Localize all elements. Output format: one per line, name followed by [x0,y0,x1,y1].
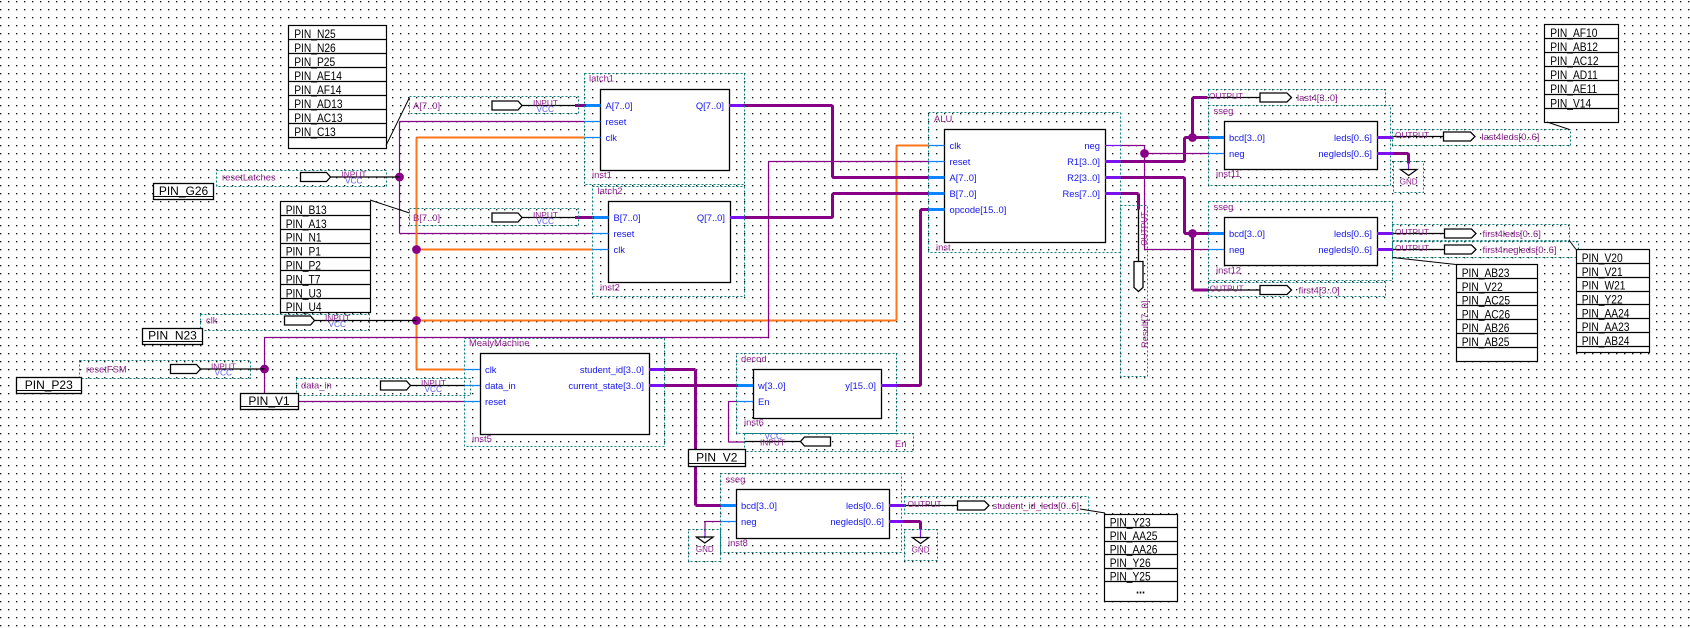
pin name inst12.negleds[0..6] [1318,244,1372,255]
pin assignment table for first4negleds (PIN_AB23...) [1457,265,1538,362]
wire bus MealyMachine.student_id to sseg inst8.bcd [664,370,721,506]
wire bus ALU.R1 to sseg inst11.bcd and output last4 [1121,98,1210,162]
svg-text:inst5: inst5 [472,433,492,444]
wire net resetFSM (input to MealyMachine.reset and ALU.reset) [265,162,929,402]
svg-text:student_id_leds[0..6]: student_id_leds[0..6] [993,500,1080,511]
selection box input clk [201,315,370,331]
svg-text:student_id[3..0]: student_id[3..0] [580,364,644,375]
pin location box PIN_G26 (resetLatches) [154,184,214,200]
pin name inst5.student_id[3..0] [580,364,644,375]
selection box inst1 [585,74,745,185]
svg-text:negleds[0..6]: negleds[0..6] [1318,148,1372,159]
label OUTPUT of pin first4[3..0] [1210,284,1244,294]
svg-text:data_in: data_in [301,380,332,391]
pin name inst11.bcd[3..0] [1229,132,1265,143]
label sseg (symbol name of inst8) [726,474,746,485]
pin name inst5.reset [485,396,506,407]
pin name inst2.reset [614,228,635,239]
pin assignment table for first4leds (PIN_V20...) [1577,250,1650,353]
input pin symbol En [745,437,831,446]
pin stub inst11.negleds[0..6] [1377,152,1394,155]
pin stub inst12.leds[0..6] [1377,232,1394,235]
wire bus sseg inst11.negleds to GND [1394,154,1409,170]
svg-text:OUTPUT: OUTPUT [1395,227,1429,237]
pin name inst2.Q[7..0] [697,212,725,223]
svg-text:Q[7..0]: Q[7..0] [696,100,724,111]
pin stub inst.R2[3..0] [1105,176,1121,179]
svg-text:decod: decod [741,353,767,364]
svg-text:A[7..0]: A[7..0] [413,100,440,111]
input pin symbol B[7..0] [492,213,575,222]
svg-text:GND: GND [696,545,714,554]
component latch2 inst2 symbol body [609,202,731,283]
selection box output Result[7..0] [1121,206,1148,377]
pin stub inst2.B[7..0] [594,216,609,219]
label INPUT/VCC of pin resetFSM [211,361,236,377]
pin name inst.A[7..0] [950,172,977,183]
svg-text:neg: neg [1084,140,1100,151]
svg-text:En: En [758,396,769,407]
callout line from table PIN_B13 to label B[7..0] [370,200,410,213]
node junction neg [1140,149,1149,158]
callout line from table PIN_AF10 to output last4leds [1547,122,1570,130]
label OUTPUT of pin first4negleds[0..6] [1395,243,1429,253]
pin name inst11.negleds[0..6] [1318,148,1372,159]
pin name inst.reset [950,156,971,167]
pin stub inst.A[7..0] [929,176,945,179]
pin stub inst5.clk [465,369,481,371]
pin stub inst5.data_in [465,385,481,387]
svg-text:leds[0..6]: leds[0..6] [846,500,884,511]
svg-text:bcd[3..0]: bcd[3..0] [741,500,777,511]
svg-text:Res[7..0]: Res[7..0] [1062,188,1100,199]
input pin symbol A[7..0] [492,101,575,110]
label pin name Result[7..0] (rotated) [1139,301,1150,348]
label INPUT/VCC of pin data_in [421,378,446,394]
svg-text:clk: clk [950,140,962,151]
svg-text:inst: inst [936,242,951,253]
node junction R1/last4 [1188,133,1197,142]
pin location box PIN_N23 (clk) [143,328,203,344]
pin assignment table for last4leds (PIN_AF10...) [1545,25,1619,123]
svg-text:R1[3..0]: R1[3..0] [1067,156,1100,167]
component sseg inst11 symbol body [1225,122,1378,170]
svg-text:OUTPUT: OUTPUT [1139,212,1149,246]
selection box output last4[3..0] [1209,90,1386,106]
label INPUT/VCC of pin A[7..0] [533,98,558,114]
pin stub inst8.bcd[3..0] [721,504,736,507]
pin name inst8.neg [741,516,757,527]
label latch1 (symbol name of inst1) [589,73,614,84]
svg-text:inst8: inst8 [728,537,748,548]
svg-text:inst1: inst1 [592,169,612,180]
selection box ground GND at sseg inst11 negleds [1394,162,1424,193]
callout line from output student_id_leds to table PIN_Y23 [1080,509,1105,513]
pin stub inst2.reset [593,233,609,235]
label OUTPUT of pin last4[3..0] [1209,91,1243,101]
svg-text:OUTPUT: OUTPUT [1209,91,1243,101]
wire node decod.En to input pin En [729,402,746,443]
pin assignment table for B[7..0] (PIN_B13...) [281,202,371,315]
svg-text:opcode[15..0]: opcode[15..0] [950,204,1007,215]
svg-text:OUTPUT: OUTPUT [908,499,942,509]
svg-text:last4leds[0..6]: last4leds[0..6] [1482,131,1540,142]
svg-text:neg: neg [1229,148,1245,159]
svg-text:ALU: ALU [934,113,952,124]
label MealyMachine (symbol name of inst5) [469,337,529,348]
pin name inst8.negleds[0..6] [830,516,884,527]
pin name inst.R1[3..0] [1067,156,1100,167]
pin stub inst.B[7..0] [929,192,945,195]
selection box output student_id_leds[0..6] [905,497,1089,514]
pin stub inst6.En [737,401,753,403]
selection box ground GND at sseg inst8 neg [689,530,721,562]
pin name inst1.clk [606,132,618,143]
svg-text:negleds[0..6]: negleds[0..6] [830,516,884,527]
selection box output first4[3..0] [1209,283,1386,297]
svg-text:En: En [895,438,906,449]
selection box inst8 [721,474,902,553]
wire bus A[7..0] input to latch1.A [575,104,586,107]
label inst8 (instance name) [728,537,748,548]
component sseg inst12 symbol body [1225,218,1378,266]
label pin name last4leds[0..6] [1482,131,1540,142]
svg-text:neg: neg [741,516,757,527]
pin name inst8.bcd[3..0] [741,500,777,511]
selection box input resetFSM [80,361,251,379]
callout line from output first4negleds to table PIN_V20 [1569,240,1576,250]
svg-text:A[7..0]: A[7..0] [606,100,633,111]
svg-text:leds[0..6]: leds[0..6] [1334,132,1372,143]
label INPUT/VCC of pin En [760,431,785,447]
selection box input En [745,434,914,452]
pin stub inst1.reset [585,121,601,123]
svg-text:clk: clk [606,132,618,143]
label pin name data_in [301,380,332,391]
label pin name B[7..0] [413,212,440,223]
svg-text:OUTPUT: OUTPUT [1210,284,1244,294]
pin location box PIN_P23 (resetFSM) [17,378,82,394]
svg-text:B[7..0]: B[7..0] [950,188,977,199]
svg-text:clk: clk [485,364,497,375]
pin stub inst12.neg [1209,249,1224,251]
svg-text:PIN_G26: PIN_G26 [159,184,209,198]
svg-text:negleds[0..6]: negleds[0..6] [1318,244,1372,255]
pin stub inst6.y[15..0] [881,384,897,387]
output pin symbol last4[3..0] [1208,93,1292,102]
svg-text:last4[3..0]: last4[3..0] [1297,92,1338,103]
svg-text:latch2: latch2 [598,185,623,196]
pin name inst.R2[3..0] [1067,172,1100,183]
selection box inst12 [1209,202,1393,281]
pin stub inst.Res[7..0] [1105,192,1121,195]
pin stub inst8.neg [721,521,736,523]
pin name inst11.leds[0..6] [1334,132,1372,143]
wire bus sseg inst8.negleds to GND [904,522,921,538]
svg-text:VCC: VCC [215,367,233,377]
node junction resetFSM [260,365,269,374]
svg-text:sseg: sseg [1214,201,1234,212]
node junction resetLatches [395,173,404,182]
svg-text:PIN_U4: PIN_U4 [286,301,322,314]
svg-text:w[3..0]: w[3..0] [757,380,786,391]
pin stub inst12.bcd[3..0] [1210,232,1225,235]
component decod inst6 symbol body [754,370,882,419]
label pin name resetFSM [86,364,127,375]
svg-text:first4negleds[0..6]: first4negleds[0..6] [1483,244,1557,255]
pin stub inst1.Q[7..0] [729,104,744,107]
input pin symbol resetLatches [301,173,400,182]
pin stub inst11.neg [1209,153,1224,155]
svg-text:inst12: inst12 [1216,265,1241,276]
wire node sseg inst8.neg to GND [705,522,721,538]
svg-text:reset: reset [485,396,506,407]
wire bus ALU.R2 to sseg inst12.bcd and output first4 [1121,178,1210,291]
selection box output last4leds[0..6] [1393,130,1571,146]
svg-text:PIN_V2: PIN_V2 [696,450,738,464]
pin stub inst5.student_id[3..0] [649,368,664,371]
svg-text:...: ... [1136,581,1145,596]
label pin name first4negleds[0..6] [1483,244,1557,255]
svg-text:OUTPUT: OUTPUT [1395,130,1429,140]
pin name inst1.Q[7..0] [696,100,724,111]
svg-text:PIN_N23: PIN_N23 [148,328,197,342]
svg-text:Q[7..0]: Q[7..0] [697,212,725,223]
output pin symbol Result[7..0] (vertical) [1134,210,1143,292]
label pin name resetLatches [222,172,276,183]
pin name inst.B[7..0] [950,188,977,199]
label ALU (symbol name of inst) [934,113,952,124]
svg-text:VCC: VCC [537,104,555,114]
svg-text:VCC: VCC [537,216,555,226]
svg-text:GND: GND [1400,178,1418,187]
svg-text:B[7..0]: B[7..0] [413,212,440,223]
pin stub inst2.Q[7..0] [730,216,744,219]
pin stub inst5.current_state[3..0] [649,384,664,387]
label inst12 (instance name) [1216,265,1241,276]
svg-text:sseg: sseg [1214,105,1234,116]
label OUTPUT of pin last4leds[0..6] [1395,130,1429,140]
pin name inst.Res[7..0] [1062,188,1100,199]
pin name inst6.y[15..0] [845,380,876,391]
pin assignment table for A[7..0] (PIN_N25...) [289,26,387,149]
svg-text:first4[3..0]: first4[3..0] [1299,285,1340,296]
label pin name clk [206,315,218,326]
label pin name En [895,438,906,449]
svg-text:sseg: sseg [726,474,746,485]
selection box inst [929,113,1121,253]
pin name inst6.w[3..0] [757,380,786,391]
svg-text:resetFSM: resetFSM [86,364,127,375]
selection box input A[7..0] [410,97,579,114]
svg-text:MealyMachine: MealyMachine [469,337,529,348]
svg-text:latch1: latch1 [589,73,614,84]
label sseg (symbol name of inst12) [1214,201,1234,212]
svg-text:bcd[3..0]: bcd[3..0] [1229,132,1265,143]
node junction clk main [412,316,421,325]
label sseg (symbol name of inst11) [1214,105,1234,116]
svg-text:y[15..0]: y[15..0] [845,380,876,391]
input pin symbol data_in [381,381,465,390]
input pin symbol resetFSM [171,365,265,374]
pin name inst5.current_state[3..0] [568,380,644,391]
svg-text:VCC: VCC [329,319,347,329]
label OUTPUT of pin Result (rotated) [1139,212,1149,246]
svg-text:VCC: VCC [425,384,443,394]
node junction clk at latch2 branch [412,245,421,254]
pin stub inst11.leds[0..6] [1377,136,1394,139]
svg-text:reset: reset [950,156,971,167]
pin name inst6.En [758,396,769,407]
svg-text:Result[7..0]: Result[7..0] [1139,301,1150,348]
svg-text:clk: clk [614,244,626,255]
label decod (symbol name of inst6) [741,353,767,364]
svg-text:VCC: VCC [345,175,363,185]
pin stub inst1.clk [585,137,601,139]
svg-text:resetLatches: resetLatches [222,172,276,183]
svg-text:INPUT: INPUT [760,437,785,447]
selection box inst11 [1209,106,1391,186]
svg-text:A[7..0]: A[7..0] [950,172,977,183]
label pin name A[7..0] [413,100,440,111]
callout line from output first4negleds to table PIN_AB23 [1393,258,1457,265]
label latch2 (symbol name of inst2) [598,185,623,196]
wire bus latch2.Q to ALU.B [744,194,929,218]
selection box inst2 [593,187,745,297]
pin stub inst12.negleds[0..6] [1377,248,1394,251]
pin location box PIN_V1 (data_in) [241,394,299,410]
pin stub inst8.leds[0..6] [889,504,906,507]
label pin name student_id_leds[0..6] [993,500,1080,511]
pin name inst8.leds[0..6] [846,500,884,511]
selection box input B[7..0] [410,209,579,226]
pin stub inst8.negleds[0..6] [889,520,904,523]
label INPUT/VCC of pin clk [325,313,350,329]
pin name inst11.neg [1229,148,1245,159]
svg-text:B[7..0]: B[7..0] [614,212,641,223]
wire bus B[7..0] input to latch2.B [575,216,594,219]
label inst11 (instance name) [1216,168,1240,179]
wire bus latch1.Q to ALU.A [744,106,929,178]
svg-text:inst11: inst11 [1216,168,1240,179]
label OUTPUT of pin first4leds[0..6] [1395,227,1429,237]
pin stub inst11.bcd[3..0] [1210,136,1225,139]
component MealyMachine inst5 symbol body [481,354,650,435]
pin stub inst.R1[3..0] [1105,160,1121,163]
ground GND at sseg inst8 neg [696,537,714,554]
selection box inst6 [737,354,897,434]
selection box input data_in [297,379,471,396]
output pin symbol first4[3..0] [1208,286,1292,295]
selection box output first4leds[0..6] [1393,225,1570,241]
component sseg inst8 symbol body [737,490,890,539]
pin stub inst.clk [929,145,945,147]
wire bus ALU.Res to output Result[7..0] [1121,194,1139,210]
svg-text:reset: reset [606,116,627,127]
ground GND at sseg inst11 negleds [1400,170,1418,187]
svg-text:data_in: data_in [485,380,516,391]
svg-text:first4leds[0..6]: first4leds[0..6] [1483,228,1541,239]
pin name inst2.B[7..0] [614,212,641,223]
svg-text:PIN_P23: PIN_P23 [25,378,73,392]
label inst6 (instance name) [744,417,764,428]
svg-text:inst6: inst6 [744,417,764,428]
pin name inst12.neg [1229,244,1245,255]
label pin name last4[3..0] [1297,92,1338,103]
svg-text:R2[3..0]: R2[3..0] [1067,172,1100,183]
pin name inst2.clk [614,244,626,255]
svg-text:PIN_V1: PIN_V1 [248,394,290,408]
pin name inst.opcode[15..0] [950,204,1007,215]
svg-text:clk: clk [206,315,218,326]
pin name inst5.data_in [485,380,516,391]
pin name inst12.bcd[3..0] [1229,228,1265,239]
label inst1 (instance name) [592,169,612,180]
svg-text:OUTPUT: OUTPUT [1395,243,1429,253]
svg-text:GND: GND [912,546,930,555]
pin stub inst.reset [929,161,945,163]
pin stub inst2.clk [593,249,609,251]
label pin name first4leds[0..6] [1483,228,1541,239]
pin stub inst.opcode[15..0] [929,208,945,211]
pin location box PIN_V2 (En) [689,450,746,467]
label inst5 (instance name) [472,433,492,444]
wire node ALU.neg to sseg inst11.neg and inst12.neg [1121,146,1210,250]
pin stub inst5.reset [465,401,481,403]
label inst (instance name) [936,242,951,253]
wire bus MealyMachine.current_state to decod.w [664,384,738,387]
output pin symbol first4negleds[0..6] [1394,245,1477,254]
wire bus decod.y to ALU.opcode [897,210,929,386]
ground GND at sseg inst8 negleds [912,538,930,555]
svg-text:bcd[3..0]: bcd[3..0] [1229,228,1265,239]
wire net resetLatches (input to latch1.reset / latch2.reset) [400,122,593,234]
svg-text:leds[0..6]: leds[0..6] [1334,228,1372,239]
output pin symbol student_id_leds[0..6] [906,501,989,510]
svg-text:current_state[3..0]: current_state[3..0] [568,380,644,391]
pin name inst.clk [950,140,962,151]
svg-text:inst2: inst2 [600,282,620,293]
selection box ground GND at sseg inst8 negleds [905,530,938,561]
component ALU inst symbol body [945,130,1106,243]
node junction R2/first4 [1188,229,1197,238]
output pin symbol last4leds[0..6] [1394,132,1476,141]
callout line from table PIN_N25 to label A[7..0] [386,98,410,146]
label OUTPUT of pin student_id_leds[0..6] [908,499,942,509]
pin name inst1.A[7..0] [606,100,633,111]
component latch1 inst1 symbol body [601,90,730,171]
selection box inst5 [465,339,665,447]
selection box input resetLatches [217,171,387,187]
svg-text:neg: neg [1229,244,1245,255]
pin stub inst1.A[7..0] [586,104,601,107]
pin stub inst.neg [1105,145,1121,147]
pin name inst5.clk [485,364,497,375]
pin assignment table for student_id_leds (PIN_Y23...) [1105,515,1178,602]
output pin symbol first4leds[0..6] [1394,229,1477,238]
label inst2 (instance name) [600,282,620,293]
svg-text:PIN_P1: PIN_P1 [286,246,321,259]
pin name inst1.reset [606,116,627,127]
label INPUT/VCC of pin resetLatches [342,169,367,185]
pin name inst12.leds[0..6] [1334,228,1372,239]
svg-text:reset: reset [614,228,635,239]
pin name inst.neg [1084,140,1100,151]
label INPUT/VCC of pin B[7..0] [533,210,558,226]
selection box output first4negleds[0..6] [1393,242,1579,258]
pin stub inst6.w[3..0] [738,384,753,387]
label pin name first4[3..0] [1299,285,1340,296]
